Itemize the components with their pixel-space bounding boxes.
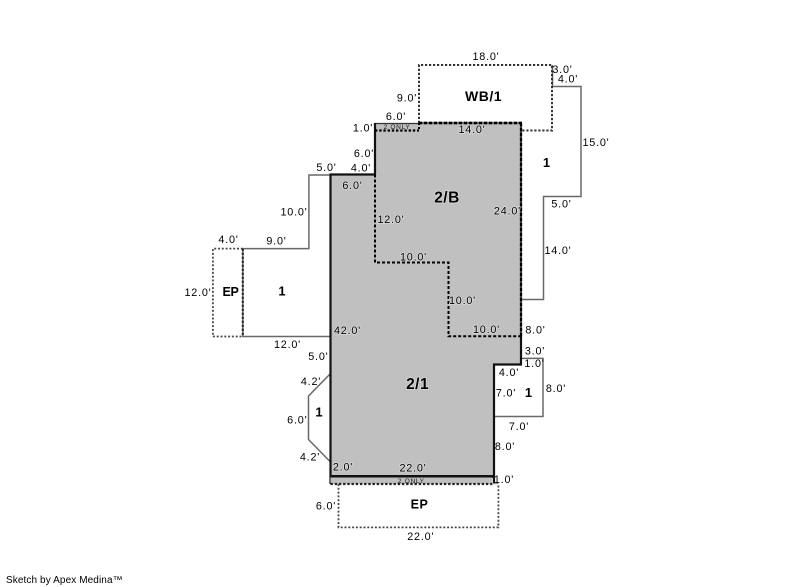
svg-text:7.0': 7.0': [509, 421, 529, 433]
svg-text:2/1: 2/1: [406, 376, 429, 393]
svg-text:12.0': 12.0': [184, 287, 211, 299]
svg-text:1: 1: [315, 405, 322, 420]
svg-text:8.0': 8.0': [525, 325, 545, 337]
svg-text:12.0': 12.0': [377, 214, 404, 226]
svg-text:10.0': 10.0': [280, 207, 307, 219]
svg-text:4.0': 4.0': [218, 234, 238, 246]
svg-text:EP: EP: [222, 285, 238, 299]
svg-text:4.0': 4.0': [351, 163, 371, 175]
svg-text:1.0': 1.0': [524, 358, 544, 370]
svg-text:4.0': 4.0': [499, 367, 519, 379]
svg-text:8.0': 8.0': [546, 383, 566, 395]
svg-text:3.0': 3.0': [525, 346, 545, 358]
svg-text:2.0': 2.0': [333, 462, 353, 474]
svg-text:14.0': 14.0': [544, 245, 571, 257]
svg-text:6.0': 6.0': [354, 148, 374, 160]
svg-text:2 ONLY: 2 ONLY: [398, 478, 425, 485]
svg-text:8.0': 8.0': [495, 441, 515, 453]
svg-text:5.0': 5.0': [308, 351, 328, 363]
svg-text:22.0': 22.0': [407, 531, 434, 543]
svg-text:10.0': 10.0': [400, 252, 427, 264]
svg-text:6.0': 6.0': [386, 111, 406, 123]
svg-text:14.0': 14.0': [458, 124, 485, 136]
svg-text:15.0': 15.0': [582, 137, 609, 149]
svg-text:5.0': 5.0': [551, 199, 571, 211]
svg-text:Sketch by Apex Medina™: Sketch by Apex Medina™: [6, 575, 123, 586]
svg-text:7.0': 7.0': [496, 388, 516, 400]
svg-text:1.0': 1.0': [353, 123, 373, 135]
svg-text:4.0': 4.0': [558, 74, 578, 86]
svg-text:1: 1: [543, 155, 550, 170]
svg-text:9.0': 9.0': [266, 236, 286, 248]
svg-text:6.0': 6.0': [316, 501, 336, 513]
svg-text:42.0': 42.0': [334, 325, 361, 337]
svg-text:2/B: 2/B: [434, 190, 460, 207]
svg-text:18.0': 18.0': [472, 51, 499, 63]
svg-text:1.0': 1.0': [494, 474, 514, 486]
svg-text:10.0': 10.0': [473, 324, 500, 336]
svg-text:5.0': 5.0': [316, 162, 336, 174]
svg-text:6.0': 6.0': [287, 415, 307, 427]
svg-text:2 ONLY: 2 ONLY: [384, 124, 411, 131]
svg-text:24.0': 24.0': [494, 206, 521, 218]
svg-text:4.2': 4.2': [300, 452, 320, 464]
svg-text:4.2': 4.2': [301, 376, 321, 388]
svg-text:12.0': 12.0': [274, 339, 301, 351]
svg-text:1: 1: [278, 284, 285, 299]
svg-text:10.0': 10.0': [449, 295, 476, 307]
svg-text:22.0': 22.0': [399, 463, 426, 475]
svg-text:WB/1: WB/1: [465, 88, 502, 104]
svg-text:EP: EP: [411, 498, 429, 512]
svg-text:1: 1: [525, 385, 532, 400]
svg-text:6.0': 6.0': [342, 180, 362, 192]
svg-text:9.0': 9.0': [397, 93, 417, 105]
